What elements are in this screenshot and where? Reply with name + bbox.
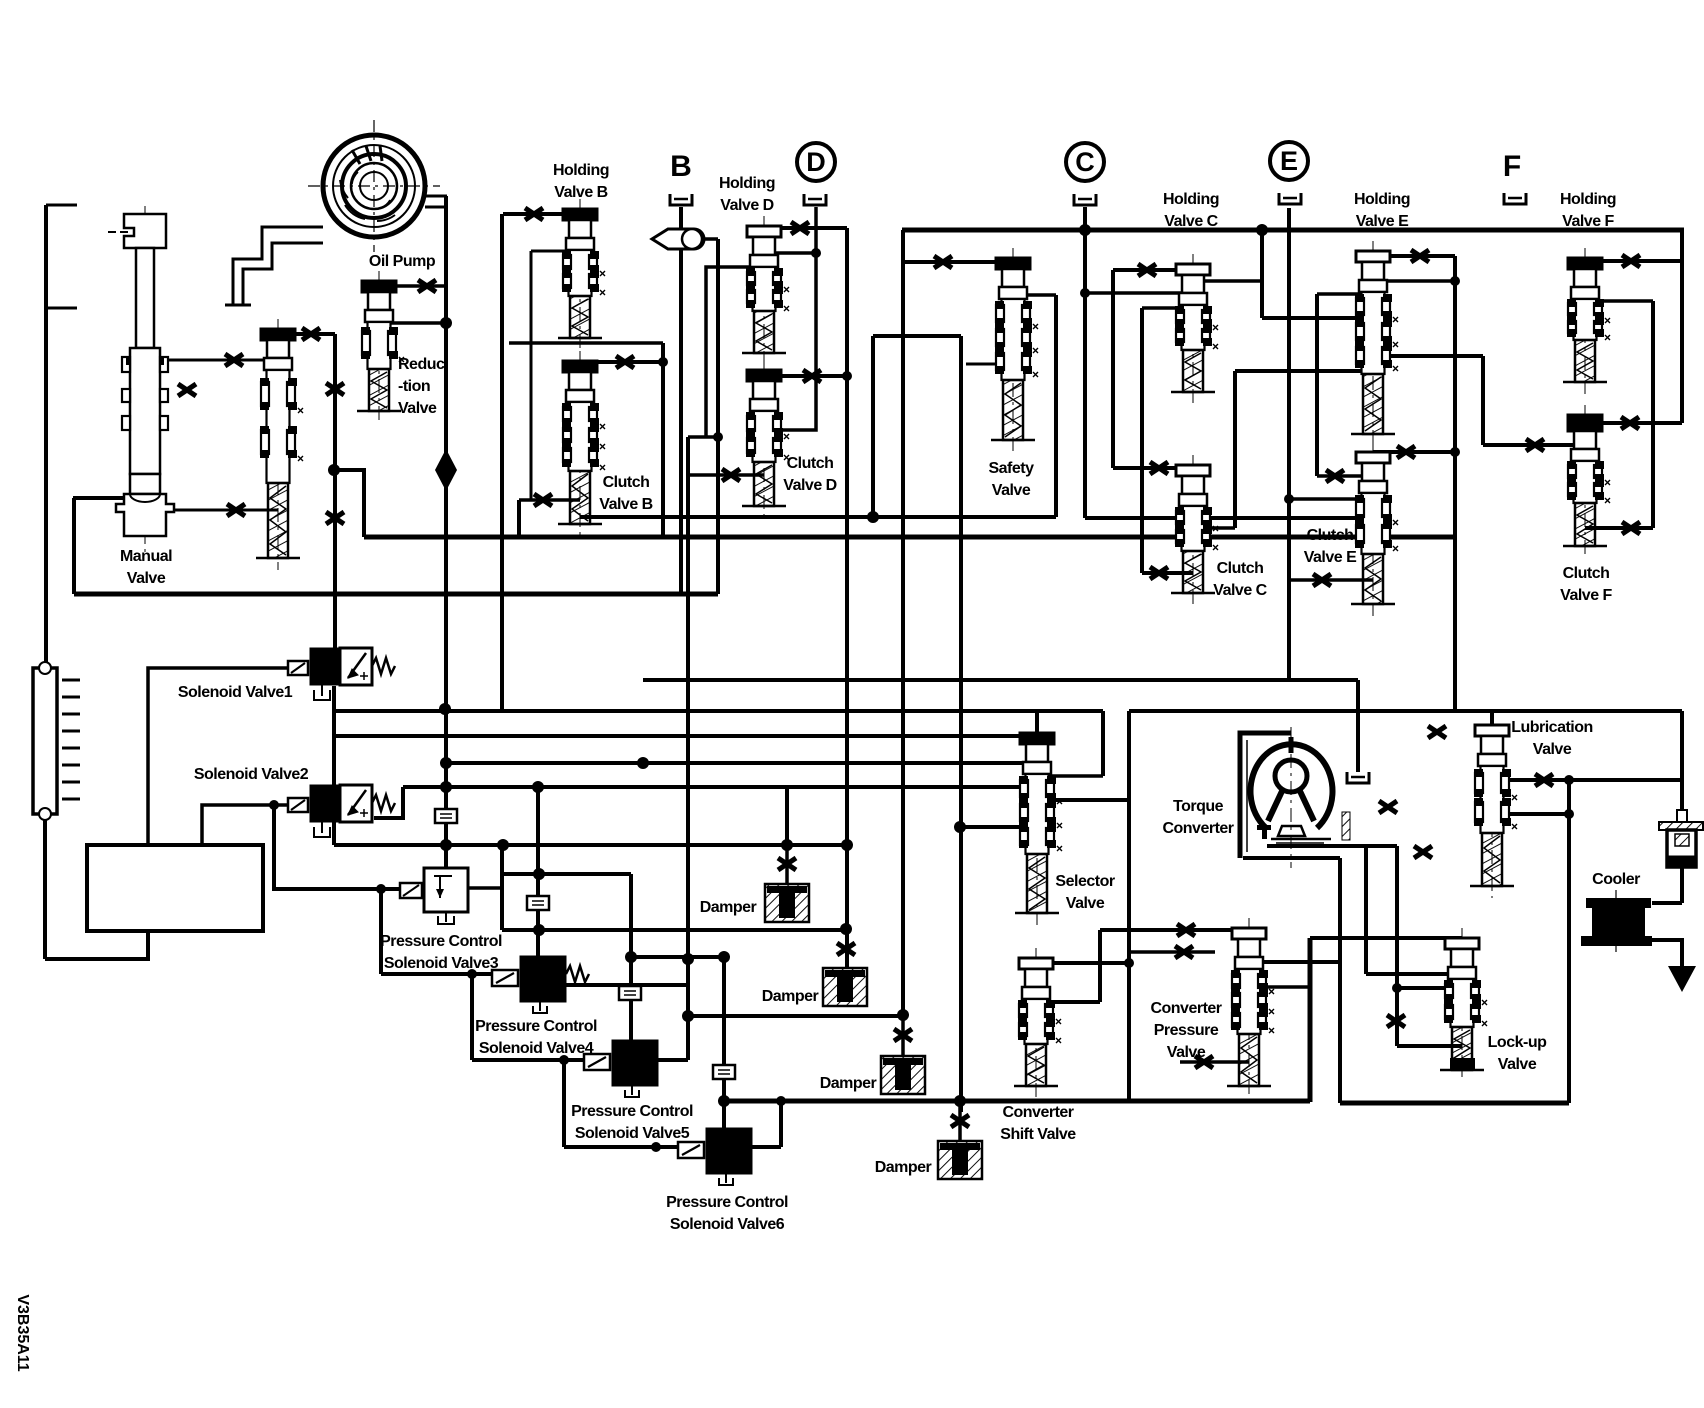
junction [1256, 224, 1268, 236]
orifice [1621, 417, 1639, 429]
junction [440, 781, 452, 793]
wire spool2 cap vertical x335 [333, 334, 337, 648]
orifice on x335 [326, 383, 344, 395]
wire right edge x1682 to filter [1680, 711, 1684, 812]
svg-text:Valve C: Valve C [1164, 213, 1218, 230]
pressure control solenoid valve 5 [584, 1040, 658, 1097]
junction [718, 951, 730, 963]
wire PCV4 right [565, 983, 688, 987]
wire C line x1085 [1083, 207, 1087, 518]
svg-text:Valve F: Valve F [1562, 213, 1614, 230]
orifice [225, 354, 243, 366]
svg-text:Holding: Holding [1560, 191, 1616, 208]
junction [1450, 447, 1460, 457]
wire holding E left port [1317, 292, 1373, 296]
svg-text:Damper: Damper [875, 1159, 932, 1176]
junction [1080, 288, 1090, 298]
solenoid valve 2 [288, 785, 395, 837]
wire holding E cap right [1373, 254, 1455, 258]
wire y318 to holding E [1262, 316, 1373, 320]
orifice floating [178, 384, 196, 396]
junction [532, 781, 544, 793]
wire oil pump main vertical x446 [444, 196, 448, 868]
svg-text:Valve: Valve [1533, 741, 1572, 758]
svg-text:Solenoid Valve2: Solenoid Valve2 [194, 766, 309, 783]
svg-text:Valve: Valve [992, 482, 1031, 499]
damper 1 [765, 884, 809, 922]
svg-text:Pressure Control: Pressure Control [571, 1103, 693, 1120]
wire x1100 CSV loop [1098, 930, 1102, 1002]
outflow arrow [1668, 966, 1696, 992]
svg-text:Valve D: Valve D [720, 197, 773, 214]
wire stub 2 [46, 307, 77, 310]
wire x903 damper3 [901, 230, 905, 1015]
svg-text:Clutch: Clutch [1563, 565, 1610, 582]
damper 3 [881, 1056, 925, 1094]
wire stub [1129, 950, 1215, 954]
wire holding B left port vertical [530, 251, 533, 500]
wire bottom-left bus y594 [74, 592, 718, 597]
wire holding B left [503, 212, 580, 216]
junction [1450, 276, 1460, 286]
orifice [1411, 250, 1429, 262]
converter pressure valve [1227, 918, 1274, 1098]
wire filter to cooler [1680, 867, 1684, 903]
wire x1366 lockup [1364, 846, 1368, 974]
wire lockup left port [1397, 986, 1462, 990]
pilot tank symbol 3 [619, 986, 641, 1000]
wire clutch F right lower [1585, 526, 1653, 530]
wire bus y711 left [334, 709, 1103, 713]
orifice [934, 256, 952, 268]
svg-text:Lubrication: Lubrication [1511, 719, 1593, 736]
orifice on x335 lower [326, 512, 344, 524]
node E [1270, 142, 1308, 180]
wire selector port drop x1103 [1101, 711, 1105, 776]
junction [328, 464, 340, 476]
svg-text:Selector: Selector [1055, 873, 1114, 890]
junction [441, 318, 451, 328]
wire safety right loop x1056 [1054, 295, 1058, 517]
wire block to solenoid2 [202, 805, 290, 844]
orifice damper1 [778, 858, 796, 870]
svg-text:Pressure Control: Pressure Control [475, 1018, 597, 1035]
wire damper1 drop [785, 845, 789, 884]
svg-text:B: B [670, 150, 692, 183]
wire bus y711 right [1129, 709, 1682, 713]
wire clutch D cap right [764, 374, 847, 378]
wire safety right port [1013, 293, 1056, 297]
wire x724 to PCV6 [722, 957, 726, 1128]
wire CPV right port 2 [1249, 985, 1310, 989]
svg-text:Clutch: Clutch [1217, 560, 1264, 577]
wire CSV mid port [1036, 1000, 1100, 1004]
svg-text:Holding: Holding [1354, 191, 1410, 208]
bowl D [804, 194, 826, 205]
wire holding F cap right [1585, 259, 1682, 263]
bowl C [1074, 194, 1096, 205]
junction [467, 969, 477, 979]
wire x873 [871, 336, 875, 517]
junction [1079, 224, 1091, 236]
wire safety left [903, 260, 1013, 264]
orifice floating 1 [1379, 801, 1397, 813]
junction [842, 371, 852, 381]
svg-text:Torque: Torque [1173, 798, 1224, 815]
svg-text:Holding: Holding [719, 175, 775, 192]
wire clutch B to safety y517 [580, 515, 1056, 519]
junction [954, 821, 966, 833]
orifice [1313, 574, 1331, 586]
pilot tank symbol 4 [713, 1065, 735, 1079]
wire clutch B spring left [519, 498, 580, 502]
wire C to clutch E y518 [1085, 516, 1355, 520]
orifice floating 2 [1414, 846, 1432, 858]
svg-text:Holding: Holding [553, 162, 609, 179]
wire bottom bus y1101 left [724, 1099, 1310, 1104]
junction [776, 1096, 786, 1106]
node D [797, 143, 835, 181]
orifice [722, 469, 740, 481]
svg-text:E: E [1280, 146, 1298, 176]
orifice [302, 328, 320, 340]
wire to bowl x1358 [1356, 680, 1360, 772]
pilot tank symbol 1 [435, 809, 457, 823]
wire x688 stub [688, 435, 718, 439]
wire x1262 [1260, 230, 1264, 318]
wire y336 [873, 334, 961, 338]
wire y957 [631, 955, 724, 959]
wire strainer to block [45, 931, 148, 959]
wire x539 to PCV4 [536, 787, 540, 956]
pilot spool valve [256, 319, 303, 570]
wire holding B vertical x502 [500, 214, 504, 709]
junction [651, 1142, 661, 1152]
wire damper3 feed y1016 [688, 1014, 903, 1018]
svg-text:Pressure Control: Pressure Control [380, 933, 502, 950]
svg-text:Damper: Damper [700, 899, 757, 916]
wire lubrication cap stub [1490, 711, 1494, 726]
svg-text:Valve D: Valve D [783, 477, 836, 494]
wire clutch E left [1317, 474, 1373, 478]
svg-text:Lock-up: Lock-up [1488, 1034, 1547, 1051]
orifice [525, 208, 543, 220]
wire x1113 clutch C feed [1111, 270, 1115, 468]
wire CSV to CPV [1100, 928, 1249, 932]
wire damper1 feed y845 [334, 843, 847, 847]
wire holding E to clutch F x1483 [1481, 356, 1485, 445]
wire TC bottom 2 [1243, 856, 1340, 860]
junction [497, 839, 509, 851]
junction [533, 868, 545, 880]
orifice damper2 [837, 943, 855, 955]
wire clutch E spring left [1289, 578, 1373, 582]
wire PCV5 right [658, 1058, 688, 1062]
svg-text:Converter: Converter [1150, 1000, 1221, 1017]
wire lubrication right 2 [1492, 812, 1569, 816]
wire holding C left [1113, 268, 1193, 272]
orifice floating 3 [1428, 726, 1446, 738]
svg-text:Shift Valve: Shift Valve [1000, 1126, 1076, 1143]
svg-text:Safety: Safety [988, 460, 1034, 477]
orifice damper4 [951, 1115, 969, 1127]
svg-text:D: D [806, 147, 826, 177]
valve body block [87, 845, 263, 931]
svg-text:Valve: Valve [398, 400, 437, 417]
junction [1124, 958, 1134, 968]
junction [781, 839, 793, 851]
wire x519 [517, 500, 521, 537]
orifice [534, 494, 552, 506]
wire to holding C left [1142, 306, 1193, 310]
svg-text:Solenoid Valve6: Solenoid Valve6 [670, 1216, 785, 1233]
wire damper4 drop [958, 1101, 962, 1141]
pressure control solenoid valve 3 [400, 868, 468, 924]
wire to PCV6 connector [564, 1145, 678, 1149]
wire to PCV5 connector [472, 1058, 584, 1062]
wire selector feed y827 [960, 825, 1025, 829]
svg-text:Valve B: Valve B [554, 184, 607, 201]
clutch valve D [742, 360, 789, 518]
wire manual valve bottom port [73, 496, 145, 500]
check diamond [435, 449, 457, 491]
wire clutch D spring left [688, 473, 764, 477]
manual valve [108, 206, 174, 552]
svg-text:Valve: Valve [1498, 1056, 1537, 1073]
wire selector feed y787 [403, 785, 1025, 789]
holding valve C [1171, 254, 1218, 404]
wire manual valve drain [72, 498, 76, 594]
wire x847 damper2 [845, 228, 849, 968]
orifice [1150, 462, 1168, 474]
wire stub top [46, 204, 77, 207]
wire selector port 800 [1037, 798, 1129, 802]
orifice on x1397 [1387, 1015, 1405, 1027]
wire lockup bottom [1397, 1044, 1462, 1048]
pressure control solenoid valve 6 [678, 1128, 752, 1185]
svg-text:Valve B: Valve B [599, 496, 652, 513]
wire block to solenoid1 [148, 668, 290, 844]
junction [954, 1095, 966, 1107]
junction [1564, 809, 1574, 819]
wire bottom bus y1103 right [1340, 1101, 1569, 1106]
wire x1310 [1308, 938, 1313, 1102]
damper 2 [823, 968, 867, 1006]
wire chain drop 1 [379, 889, 383, 974]
wire holding C right port [1193, 279, 1262, 283]
oil pump outlet [425, 195, 447, 198]
wire branch x364 [335, 470, 364, 537]
svg-text:Reduc: Reduc [398, 356, 445, 373]
wire D line down [764, 207, 816, 430]
junction [811, 248, 821, 258]
node C [1066, 143, 1104, 181]
filter [1659, 810, 1703, 867]
bowl F [1504, 193, 1526, 204]
orifice [803, 370, 821, 382]
wire holding D cap right [764, 226, 847, 230]
wire E to clutch E [1289, 497, 1373, 501]
svg-text:Pressure: Pressure [1154, 1022, 1219, 1039]
orifice [1535, 774, 1553, 786]
wire y874 [502, 872, 631, 876]
svg-text:Solenoid Valve3: Solenoid Valve3 [384, 955, 499, 972]
wire reduction right port [379, 321, 446, 325]
holding valve B [558, 199, 605, 350]
wire lubrication down x1569 [1567, 780, 1571, 1103]
junction [718, 1095, 730, 1107]
oil pump [308, 120, 440, 252]
orifice [1138, 264, 1156, 276]
svg-text:Valve: Valve [1167, 1044, 1206, 1061]
wire reduction top right [379, 284, 446, 288]
reduction valve [357, 271, 404, 423]
wire CPV right port [1249, 960, 1340, 964]
wire clutch F cap right [1585, 421, 1682, 425]
wire CPV spring left [1180, 1060, 1249, 1064]
svg-text:F: F [1503, 150, 1521, 183]
junction [897, 1009, 909, 1021]
svg-text:Valve E: Valve E [1304, 549, 1357, 566]
junction [840, 923, 852, 935]
svg-text:Pressure Control: Pressure Control [666, 1194, 788, 1211]
orifice [1177, 924, 1195, 936]
wire holding F right port [1585, 299, 1653, 303]
junction [682, 953, 694, 965]
clutch valve E [1351, 442, 1398, 616]
orifice [1397, 446, 1415, 458]
svg-text:Clutch: Clutch [787, 455, 834, 472]
orifice [1622, 522, 1640, 534]
svg-text:V3B35A11: V3B35A11 [14, 1294, 31, 1371]
wire x1235 [1233, 371, 1237, 528]
orifice [1175, 946, 1193, 958]
wire lubrication right [1492, 778, 1682, 782]
junction [1392, 983, 1402, 993]
wire manual to spool2 b [150, 509, 278, 512]
wire clutch C right port [1193, 526, 1235, 530]
lubrication valve [1470, 715, 1517, 898]
svg-text:Manual: Manual [120, 548, 172, 565]
wire chain drop 2 [470, 974, 474, 1060]
wire x1129 [1127, 711, 1131, 1101]
junction [637, 757, 649, 769]
svg-text:-tion: -tion [398, 378, 430, 395]
wire x1142 [1140, 308, 1144, 573]
converter shift valve [1014, 948, 1061, 1098]
wire to PCV4 connector [381, 972, 492, 976]
orifice [1622, 255, 1640, 267]
check valve capsule [652, 229, 704, 249]
wire cooler out [1652, 940, 1682, 966]
wire y930 [502, 928, 846, 932]
wire x663 [661, 343, 665, 537]
junction [625, 951, 637, 963]
wire solenoid2 to PCV3 [274, 805, 399, 889]
wire PCV6 right [752, 1145, 781, 1149]
holding valve F [1563, 248, 1610, 394]
wire x631 to PCV5 [629, 874, 633, 1040]
wire TC bottom 1 [1267, 844, 1397, 848]
svg-text:Clutch: Clutch [1307, 527, 1354, 544]
holding valve E [1351, 241, 1398, 446]
bowl B [670, 194, 692, 205]
wire holding D right port [764, 251, 816, 255]
orifice damper3 [894, 1029, 912, 1041]
wire holding E left loop x1317 [1315, 294, 1319, 476]
wire damper3 drop [901, 1015, 905, 1056]
wire left edge vertical top [44, 205, 48, 667]
wire x787 damper1 [785, 787, 789, 845]
wire selector cap stub [1035, 711, 1039, 733]
wire main line B-F bus y230 [902, 228, 1684, 233]
torque converter [1240, 727, 1350, 868]
svg-text:Valve C: Valve C [1213, 582, 1267, 599]
svg-text:Oil Pump: Oil Pump [369, 253, 436, 270]
junction [269, 800, 279, 810]
wire PCV3 right [469, 886, 502, 890]
wire holding B bottom link [509, 341, 663, 345]
wire x688 [686, 437, 690, 1060]
junction [867, 511, 879, 523]
junction [559, 1055, 569, 1065]
svg-text:Cooler: Cooler [1592, 871, 1640, 888]
holding valve D [742, 216, 789, 365]
wire holding D left loop [706, 267, 764, 437]
junction [1564, 775, 1574, 785]
lock-up valve bottom cap [1450, 1058, 1475, 1070]
wire clutch C spring left [1142, 571, 1193, 575]
orifice [616, 356, 634, 368]
wire CSV cap port [1036, 961, 1129, 965]
svg-text:Clutch: Clutch [603, 474, 650, 491]
pilot tank symbol 2 [527, 896, 549, 910]
wire manual to spool2 a [150, 359, 278, 362]
wire x961 damper4 [959, 336, 963, 1112]
orifice [1326, 470, 1344, 482]
svg-text:Solenoid Valve4: Solenoid Valve4 [479, 1040, 594, 1057]
junction [376, 884, 386, 894]
lock-up valve [1440, 928, 1487, 1082]
svg-text:C: C [1075, 147, 1095, 177]
wire clutch C cap left [1113, 466, 1193, 470]
svg-text:Solenoid Valve1: Solenoid Valve1 [178, 684, 293, 701]
svg-text:Valve: Valve [127, 570, 166, 587]
wire solenoid2 out loop [374, 787, 403, 818]
wire clutch B cap right [580, 360, 663, 364]
wire holding F right loop x1653 [1651, 301, 1655, 528]
svg-text:Converter: Converter [1162, 820, 1233, 837]
wire spool2 cap right [278, 332, 335, 336]
wire holding E mid right [1373, 354, 1483, 358]
wire left edge vertical bottom [43, 814, 47, 959]
svg-text:Solenoid Valve5: Solenoid Valve5 [575, 1125, 690, 1142]
solenoid valve 1 [288, 648, 395, 700]
wire B line x681 [679, 207, 683, 594]
wire right edge x1682 top [1680, 230, 1684, 423]
wire E line x1289 [1287, 208, 1291, 680]
clutch valve F [1563, 405, 1610, 558]
wire lockup cap feed [1310, 936, 1462, 940]
damper 4 [938, 1141, 982, 1179]
wire x1397 lockup [1395, 846, 1399, 1046]
oil pump inlet pipe [233, 227, 323, 305]
junction [713, 432, 723, 442]
wire holding B left port [531, 250, 580, 253]
wire safety left stub [966, 363, 1013, 366]
wire cooler in [1652, 901, 1682, 905]
pressure control solenoid valve 4 [492, 956, 589, 1013]
